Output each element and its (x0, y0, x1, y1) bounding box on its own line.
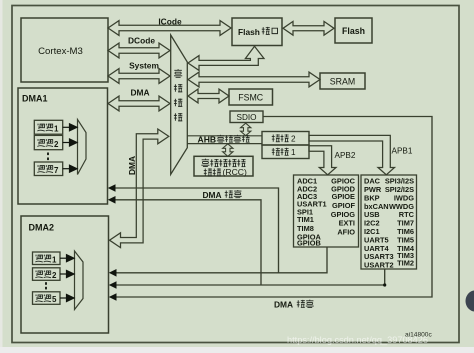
arrow CH5 DMA2 to arbiter (60, 297, 67, 299)
hollow arrow AHB to RCC (223, 144, 233, 157)
svg-text:EXTI: EXTI (339, 219, 355, 228)
block bridge1 (262, 145, 309, 159)
svg-text:2: 2 (291, 135, 296, 144)
svg-text:1: 1 (54, 124, 59, 133)
svg-text:FSMC: FSMC (238, 92, 264, 102)
wire DMA2 request line 2 from APB1 (115, 269, 385, 285)
block SDIO (230, 111, 263, 123)
svg-text:2: 2 (52, 271, 57, 280)
svg-text:TIM1: TIM1 (297, 215, 314, 224)
svg-text:GPIOB: GPIOB (297, 239, 321, 248)
arrowhead DMA2 request 3 (109, 293, 117, 301)
svg-text:1: 1 (291, 148, 296, 157)
svg-text:1: 1 (52, 255, 57, 264)
label RCC line1 (reset and clock) (201, 159, 245, 167)
label AHB system bus (198, 135, 250, 145)
block FSMC (229, 89, 273, 105)
arrow CH1 DMA2 to arbiter (60, 257, 67, 259)
hollow arrow matrix to FSMC (188, 89, 229, 103)
svg-text:7: 7 (54, 166, 59, 175)
svg-text:DCode: DCode (128, 35, 155, 45)
block Cortex-M3 (21, 18, 108, 82)
svg-text:GPIOF: GPIOF (332, 201, 355, 210)
svg-text:Flash: Flash (238, 27, 260, 37)
svg-text:(RCC): (RCC) (223, 167, 247, 177)
hollow arrow System bus (108, 69, 170, 84)
block bridge2 (262, 132, 309, 146)
junction dot APB1 drop (383, 283, 386, 286)
hollow arrow bridge2 to APB1 (309, 135, 395, 174)
wire DMA2 request line 3 from SDIO (115, 117, 433, 298)
label RCC line2 control (RCC) (204, 167, 247, 177)
hollow arrow DCode bus (108, 43, 170, 58)
labels channel boxes DMA1 (37, 124, 59, 175)
block Flash interface (232, 18, 282, 46)
svg-text:DMA: DMA (274, 300, 293, 310)
arbiter funnel of DMA2 (75, 251, 84, 310)
svg-text:GPIOG: GPIOG (331, 210, 355, 219)
block RCC (194, 156, 253, 176)
block DMA2 (21, 216, 109, 333)
arrowhead DMA2 request 2 (109, 281, 117, 289)
peripheral list APB1 (364, 177, 415, 270)
label bus matrix vertical (zong xian ju zhen) (174, 69, 182, 121)
arrowhead DMA2 request 1 (109, 269, 117, 277)
hollow arrow ICode bus (108, 21, 231, 36)
svg-text:AHB: AHB (198, 135, 217, 145)
arrowhead DMA1 request lower (108, 196, 116, 204)
channel box CH1 of DMA1 (34, 120, 62, 134)
block SRAM (320, 73, 365, 89)
AHB bus band (187, 136, 262, 144)
svg-text:DMA2: DMA2 (29, 223, 55, 233)
channel box CH1 of DMA2 (33, 252, 61, 265)
svg-text:GPIOE: GPIOE (332, 192, 355, 201)
svg-text:DMA: DMA (127, 156, 137, 175)
channel box CH7 of DMA1 (34, 162, 62, 176)
hollow trunk matrix down to DMA2 (110, 129, 169, 248)
svg-text:USART2: USART2 (364, 261, 394, 270)
svg-text:APB2: APB2 (335, 151, 356, 160)
svg-text:APB1: APB1 (392, 147, 413, 156)
hollow arrow bridge1 to APB2 (309, 146, 336, 175)
svg-text:2: 2 (54, 140, 59, 149)
ellipsis dots DMA1 (45, 153, 49, 290)
bus matrix parallelogram (171, 35, 188, 174)
channel box CH2 of DMA2 (33, 268, 61, 281)
block Flash (335, 18, 372, 43)
channel box CH5 of DMA2 (33, 292, 61, 305)
watermark avatar circle (466, 291, 474, 312)
hollow arrow SDIO to AHB (241, 123, 251, 136)
svg-text:SDIO: SDIO (236, 113, 256, 122)
wire DMA2 request line 1 from APB2 (115, 247, 328, 273)
svg-text:System: System (129, 60, 159, 70)
peripheral list APB2 (297, 177, 356, 248)
left gray strip (0, 0, 3, 348)
svg-text:AFIO: AFIO (337, 227, 355, 236)
svg-text:ICode: ICode (158, 16, 182, 26)
arrow CH2 DMA1 to arbiter (63, 142, 70, 144)
svg-text:TIM2: TIM2 (397, 258, 414, 267)
svg-text:DMA: DMA (203, 190, 222, 200)
svg-text:https://blog.csdn.net/qq_39708: https://blog.csdn.net/qq_39708426 (287, 335, 428, 345)
hollow arrow DMA bus (DMA1 to matrix) (108, 96, 170, 111)
svg-text:SRAM: SRAM (330, 76, 355, 86)
block DMA1 (18, 88, 108, 204)
label bridge 1 (272, 148, 296, 157)
ellipsis dots DMA2 (45, 282, 47, 285)
channel box CH2 of DMA1 (34, 135, 62, 149)
arrowhead DMA1 request upper (108, 184, 116, 192)
hollow arrow Flash interface to Flash (283, 21, 334, 35)
wire DMA1 request line lower (114, 200, 262, 285)
label DMA request upper (203, 190, 242, 200)
wire DMA1 request line upper (114, 188, 279, 273)
hollow path matrix up to Flash interface (188, 46, 264, 70)
svg-text:DMA: DMA (130, 88, 149, 98)
svg-text:Flash: Flash (342, 26, 365, 36)
arbiter funnel of DMA1 (78, 120, 87, 175)
label DMA request bottom (274, 300, 314, 310)
arrow CH1 DMA1 to arbiter (63, 126, 70, 128)
label bridge 2 (272, 134, 296, 143)
hollow arrow matrix to SRAM (188, 72, 320, 87)
svg-text:Cortex-M3: Cortex-M3 (38, 46, 83, 57)
svg-text:5: 5 (52, 295, 57, 304)
arrow CH2 DMA2 to arbiter (60, 273, 67, 275)
svg-text:DMA1: DMA1 (22, 94, 48, 104)
labels channel boxes DMA2 (35, 255, 57, 304)
block APB1 peripherals (361, 175, 417, 269)
bottom gray strip (0, 347, 474, 353)
arrow CH7 DMA1 to arbiter (63, 168, 70, 170)
block APB2 peripherals (294, 175, 359, 247)
label Flash JieKou (Flash interface) (238, 27, 277, 37)
